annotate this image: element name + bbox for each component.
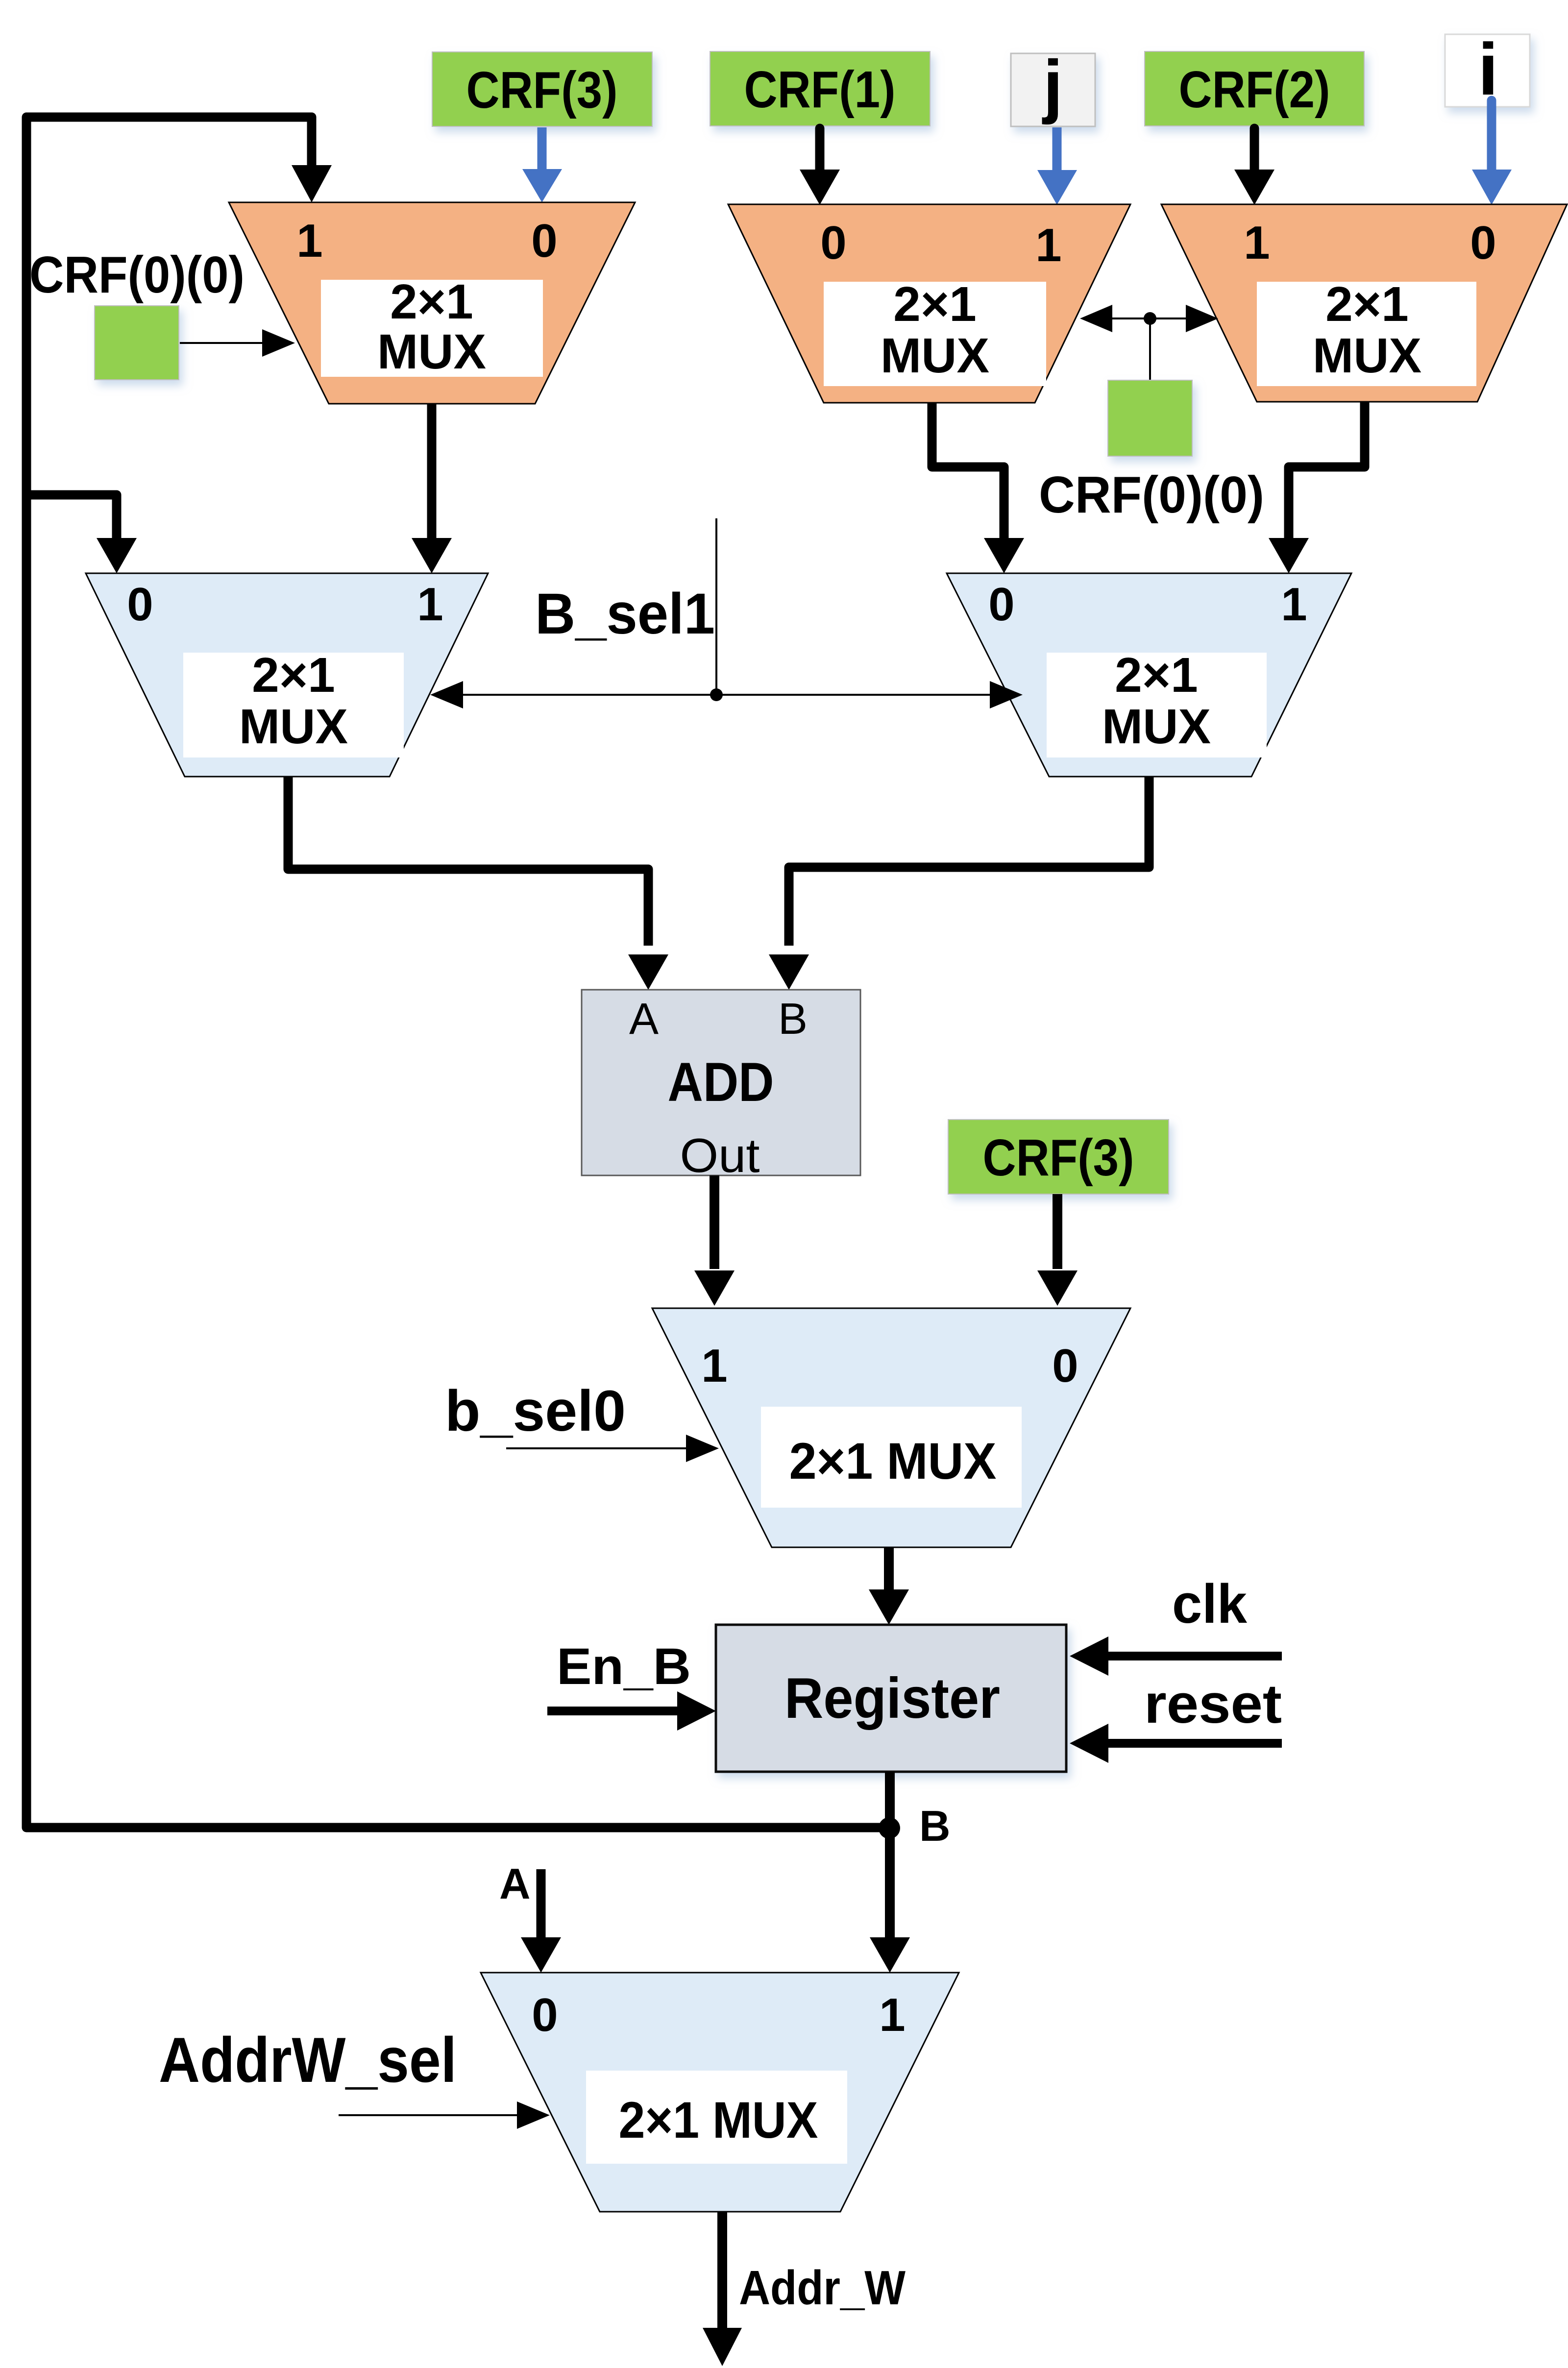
- CRF(3) input box (top): [432, 52, 652, 126]
- svg-text:En_B: En_B: [557, 1638, 691, 1695]
- svg-text:MUX: MUX: [1102, 699, 1211, 754]
- mux U3 (top-right orange 2x1 MUX): [1161, 204, 1567, 402]
- svg-text:1: 1: [417, 578, 443, 631]
- mux U4 (second-row left blue 2x1 MUX): [86, 573, 488, 777]
- svg-text:2×1: 2×1: [1115, 648, 1198, 703]
- svg-text:CRF(1): CRF(1): [744, 61, 896, 119]
- wire CRF(3) to MUX U6 input 0: [1053, 1194, 1062, 1269]
- j input box: [1011, 53, 1095, 126]
- wire feedback loop from node B to top-left: [26, 117, 890, 1828]
- svg-text:0: 0: [820, 217, 846, 269]
- svg-text:0: 0: [1470, 217, 1496, 269]
- svg-text:CRF(3): CRF(3): [466, 61, 618, 119]
- wire select arrow into MUX U1: [180, 342, 265, 344]
- svg-text:MUX: MUX: [1313, 328, 1421, 383]
- wire MUX U5 output to ADD input B: [789, 777, 1149, 946]
- svg-text:clk: clk: [1172, 1573, 1248, 1635]
- wire b_sel0 select arrow into MUX U6: [506, 1447, 688, 1449]
- wire MUX U2 output to MUX U5 input 0: [932, 403, 1004, 541]
- wire blue arrow CRF(3) to MUX U1 input 0: [538, 127, 547, 171]
- adder ADD: [582, 990, 860, 1175]
- svg-text:2×1: 2×1: [252, 648, 335, 703]
- svg-text:j: j: [1042, 46, 1063, 125]
- wire arrow into MUX U1 input 1: [292, 165, 332, 202]
- svg-text:CRF(3): CRF(3): [983, 1129, 1134, 1187]
- svg-text:0: 0: [988, 578, 1014, 631]
- wire Addr_W output arrow: [717, 2212, 727, 2330]
- svg-text:MUX: MUX: [239, 699, 348, 754]
- register REG: [716, 1625, 1066, 1772]
- mux U1 (top-left orange 2x1 MUX): [229, 202, 635, 404]
- svg-text:B: B: [778, 995, 808, 1044]
- svg-text:2×1: 2×1: [390, 274, 473, 329]
- svg-text:B: B: [919, 1802, 951, 1850]
- CRF(0)(0) green value box (middle): [1108, 380, 1192, 456]
- wire B_sel1 select net: [715, 518, 717, 695]
- node junction on select net: [1144, 312, 1156, 325]
- svg-text:0: 0: [127, 578, 153, 631]
- wire from junction down to CRF(0)(0) green box: [1149, 318, 1151, 380]
- svg-text:Register: Register: [784, 1666, 1000, 1730]
- svg-text:B_sel1: B_sel1: [535, 582, 715, 646]
- svg-text:1: 1: [879, 1989, 905, 2041]
- svg-text:CRF(0)(0): CRF(0)(0): [29, 246, 245, 304]
- wire select net between MUX U2 and MUX U3: [1110, 317, 1188, 319]
- node B junction: [879, 1817, 900, 1839]
- wire reset arrow into Register: [1108, 1739, 1282, 1748]
- svg-text:2×1: 2×1: [1325, 277, 1409, 332]
- CRF(2) input box: [1145, 51, 1364, 126]
- svg-text:0: 0: [1052, 1340, 1078, 1392]
- wire En_B enable arrow into Register: [547, 1707, 681, 1715]
- mux U5 (second-row right blue 2x1 MUX): [947, 573, 1351, 777]
- svg-text:1: 1: [1035, 219, 1061, 271]
- wire Register Q output down to MUX U7 input 1: [885, 1772, 895, 1938]
- svg-text:0: 0: [531, 215, 557, 267]
- svg-text:Out: Out: [680, 1128, 760, 1182]
- svg-text:Addr_W: Addr_W: [739, 2261, 906, 2315]
- svg-text:1: 1: [1281, 578, 1307, 631]
- svg-text:AddrW_sel: AddrW_sel: [159, 2024, 457, 2096]
- wire black arrow CRF(2) to MUX U3 input 1: [1250, 128, 1259, 171]
- svg-text:reset: reset: [1144, 1673, 1282, 1734]
- mux U7 (bottom blue 2x1 MUX): [481, 1973, 959, 2212]
- svg-text:0: 0: [532, 1989, 558, 2041]
- wire ADD output to MUX U6 input 1: [710, 1175, 719, 1269]
- svg-text:CRF(2): CRF(2): [1179, 61, 1330, 119]
- svg-text:A: A: [629, 995, 659, 1044]
- svg-text:b_sel0: b_sel0: [445, 1379, 626, 1443]
- wire clk arrow into Register: [1108, 1652, 1282, 1660]
- svg-text:2×1: 2×1: [893, 277, 977, 332]
- i input box: [1445, 34, 1530, 107]
- wire AddrW_sel select arrow into MUX U7: [339, 2114, 519, 2116]
- CRF(0)(0) green value box (left): [95, 306, 179, 380]
- svg-text:1: 1: [1244, 217, 1270, 269]
- CRF(1) input box: [710, 51, 930, 126]
- svg-text:1: 1: [701, 1340, 727, 1392]
- CRF(3) input box (middle): [948, 1120, 1169, 1194]
- wire blue arrow j to MUX U2 input 1: [1053, 127, 1062, 171]
- node junction on B_sel1 net: [710, 688, 723, 701]
- svg-text:MUX: MUX: [881, 328, 989, 383]
- mux U2 (top-middle orange 2x1 MUX): [728, 204, 1130, 403]
- svg-text:2×1 MUX: 2×1 MUX: [789, 1433, 997, 1490]
- wire black arrow CRF(1) to MUX U2 input 0: [815, 128, 825, 171]
- mux U6 (third-row blue 2x1 MUX): [652, 1308, 1130, 1547]
- svg-text:CRF(0)(0): CRF(0)(0): [1039, 466, 1264, 524]
- svg-text:A: A: [499, 1859, 531, 1908]
- wire MUX U4 output to ADD input A: [288, 777, 648, 946]
- wire arrow into MUX U4 input 0: [97, 538, 137, 573]
- wire branch from feedback loop to MUX U4 input 0: [26, 495, 117, 541]
- wire A input stub into MUX U7 input 0: [537, 1869, 546, 1938]
- wire MUX U1 output down to MUX U4 input 1: [427, 404, 437, 541]
- svg-text:1: 1: [296, 215, 322, 267]
- svg-text:ADD: ADD: [668, 1051, 774, 1113]
- wire blue arrow i to MUX U3 input 0: [1487, 100, 1496, 171]
- wire MUX U3 output to MUX U5 input 1: [1289, 402, 1365, 541]
- svg-text:2×1 MUX: 2×1 MUX: [619, 2092, 818, 2149]
- wire MUX U6 output to Register D input: [884, 1547, 894, 1592]
- svg-text:MUX: MUX: [377, 324, 486, 379]
